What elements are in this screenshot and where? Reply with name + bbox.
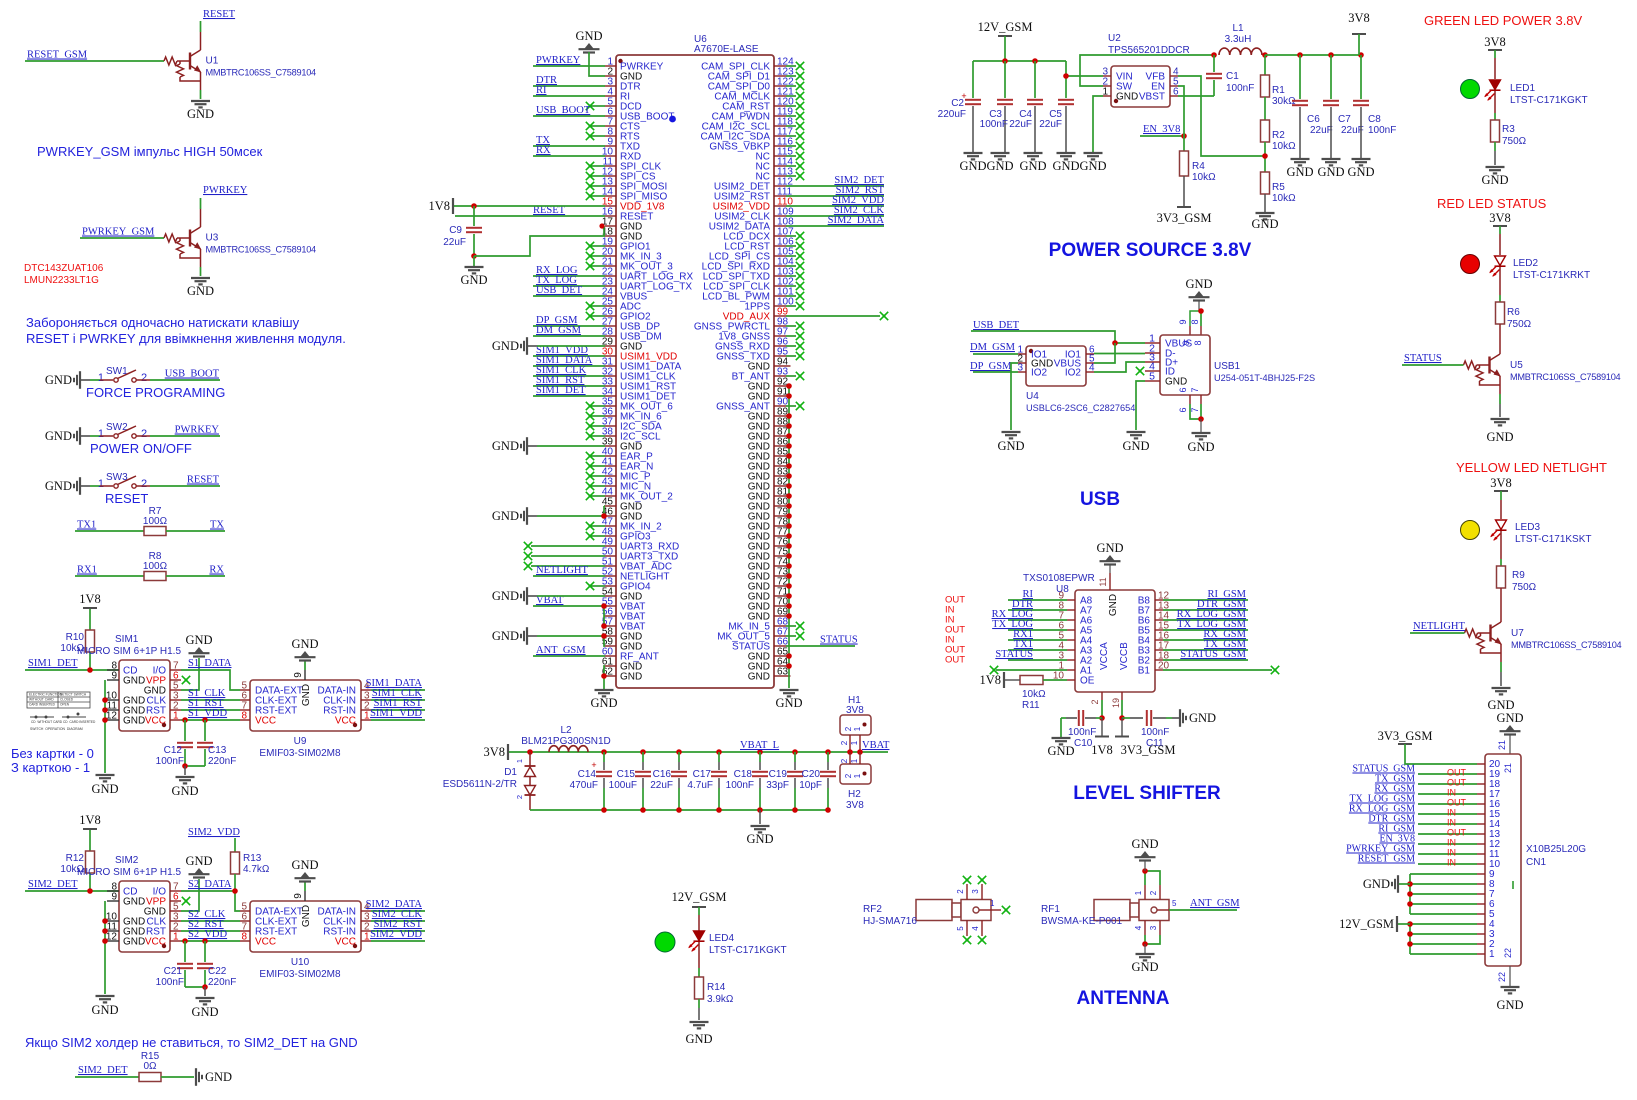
svg-text:GND: GND [1116, 92, 1138, 103]
svg-text:EN_3V8: EN_3V8 [1143, 124, 1180, 135]
svg-text:10kΩ: 10kΩ [1022, 689, 1046, 700]
svg-text:LTST-C171KGKT: LTST-C171KGKT [709, 945, 787, 956]
ground [195, 868, 204, 874]
ground [1024, 152, 1043, 154]
module U6 A7670E-LASE [616, 55, 774, 688]
svg-text:IN: IN [1447, 838, 1456, 848]
wire VBAT [533, 605, 605, 607]
svg-text:GND: GND [748, 672, 770, 683]
transistor U5 MMBTRC106SS [1499, 324, 1501, 336]
svg-text:3V8: 3V8 [1484, 35, 1506, 49]
side grounds on U6 left GND pins [526, 337, 528, 355]
svg-text:U5: U5 [1510, 360, 1523, 371]
svg-text:LED4: LED4 [709, 933, 734, 944]
svg-text:C14: C14 [578, 769, 597, 780]
pin 6 USB_BOOT mode dot [669, 116, 676, 123]
resistor R10 10k pullup [89, 608, 91, 630]
svg-text:CN1: CN1 [1526, 857, 1546, 868]
svg-text:33pF: 33pF [766, 780, 789, 791]
wire RI to A8 [1067, 599, 1075, 601]
svg-text:GND: GND [748, 612, 770, 623]
wire SIM1_CLK [533, 375, 605, 377]
wire B3 to TX_GSM [1155, 649, 1163, 651]
svg-text:DP_GSM: DP_GSM [970, 361, 1012, 372]
svg-text:5: 5 [956, 926, 965, 931]
ground [304, 882, 306, 891]
svg-text:LED2: LED2 [1513, 258, 1538, 269]
wire TX right [166, 530, 225, 532]
wire VBAT ground rail [530, 809, 828, 811]
capacitor C2 220uF bulk [972, 61, 974, 98]
svg-text:1V8: 1V8 [428, 199, 450, 213]
svg-text:LCD_BL_PWM: LCD_BL_PWM [702, 292, 770, 303]
U6 left no-connect crosses [590, 105, 605, 107]
power 3V3_GSM [1177, 206, 1191, 208]
ground [304, 661, 306, 670]
svg-text:GND: GND [748, 442, 770, 453]
ground [191, 100, 210, 102]
wire D- straight [1094, 353, 1145, 355]
wire USB_DET [533, 295, 605, 297]
wire B6 to RX_LOG_GSM [1155, 619, 1163, 621]
wire SIM1_CLK [371, 699, 425, 701]
wire VDD_AUX no-connect [786, 315, 880, 317]
svg-text:ESD5611N-2/TR: ESD5611N-2/TR [443, 779, 517, 790]
power 3V8 feed [507, 744, 509, 760]
capacitor C15 100uF [640, 749, 646, 755]
wire B5 to TX_LOG_GSM [1155, 629, 1163, 631]
wire capacitor commons [185, 986, 205, 988]
svg-text:OUT: OUT [1447, 768, 1467, 778]
svg-text:U7: U7 [1511, 628, 1524, 639]
svg-text:MICRO SIM 6+1P H1.5: MICRO SIM 6+1P H1.5 [77, 646, 181, 657]
inductor L1 3.3uH [1211, 52, 1217, 58]
svg-text:USB_BOOT: USB_BOOT [536, 105, 591, 116]
svg-text:GND: GND [620, 672, 642, 683]
svg-text:1V8: 1V8 [1091, 743, 1113, 757]
wire USB_BOOT [533, 115, 605, 117]
resistor R5 10k [1261, 172, 1270, 194]
svg-text:C12: C12 [164, 745, 183, 756]
wire TX [533, 145, 605, 147]
wire VIN [1066, 75, 1103, 77]
svg-text:10kΩ: 10kΩ [1272, 193, 1296, 204]
svg-text:GND: GND [1019, 159, 1046, 173]
svg-text:GND: GND [492, 339, 519, 353]
svg-text:1: 1 [850, 758, 859, 763]
wire C9 to U6 GND pins 17,18 [474, 236, 605, 256]
svg-text:94: 94 [777, 357, 789, 368]
svg-text:2: 2 [1149, 890, 1158, 895]
ground [1002, 431, 1021, 433]
svg-text:IN: IN [1447, 858, 1456, 868]
svg-text:C9: C9 [449, 225, 462, 236]
svg-text:RESET і PWRKEY для ввімкнення: RESET і PWRKEY для ввімкнення живлення м… [26, 331, 346, 346]
svg-text:1: 1 [1489, 949, 1495, 960]
svg-text:C21: C21 [164, 966, 183, 977]
ground [1136, 953, 1155, 955]
svg-text:C18: C18 [734, 769, 753, 780]
ground [690, 1021, 709, 1023]
svg-text:CAM_PWDN: CAM_PWDN [712, 112, 770, 123]
svg-text:NC: NC [756, 172, 770, 183]
svg-text:GND: GND [748, 432, 770, 443]
svg-text:2: 2 [141, 372, 147, 384]
svg-text:OPEN: OPEN [60, 703, 70, 707]
svg-text:GND: GND [748, 362, 770, 373]
wire RX1 to A4 [1067, 639, 1075, 641]
transistor U7 MMBTRC106SS [1500, 588, 1502, 604]
svg-text:S2_VDD: S2_VDD [188, 929, 228, 940]
capacitor C12 100nF [182, 717, 188, 723]
svg-text:C13: C13 [208, 745, 227, 756]
capacitor C10 100nF [1096, 717, 1102, 719]
svg-text:750Ω: 750Ω [1502, 136, 1527, 147]
svg-text:VCCB: VCCB [1119, 642, 1130, 670]
ground [79, 427, 81, 445]
LED LED2 LTST-C171KRKT [1461, 255, 1480, 274]
svg-text:RX1: RX1 [77, 565, 97, 576]
svg-text:2: 2 [1489, 939, 1495, 950]
capacitor C21 100nF [182, 938, 188, 944]
svg-text:R14: R14 [707, 982, 726, 993]
svg-text:R4: R4 [1192, 161, 1205, 172]
sim filter IC U9 EMIF03-SIM02M8 [250, 680, 361, 731]
svg-text:220nF: 220nF [208, 756, 236, 767]
wire SIM2_RST [371, 930, 425, 932]
wire U4 GND [1011, 363, 1018, 430]
svg-text:HJ-SMA716: HJ-SMA716 [863, 916, 917, 927]
wire TX_LOG_GSM [1418, 803, 1477, 805]
svg-text:100nF: 100nF [1368, 125, 1396, 136]
node SIM2_DET junction [87, 888, 93, 894]
svg-text:C7: C7 [1338, 114, 1351, 125]
svg-text:GND: GND [748, 492, 770, 503]
svg-text:L2: L2 [560, 725, 572, 736]
svg-text:R13: R13 [243, 853, 262, 864]
RF2 pin 1 no-connect [991, 909, 1001, 911]
svg-text:4: 4 [1134, 925, 1143, 930]
power 12V_GSM [1396, 916, 1398, 932]
no-connect ID pin [1136, 367, 1144, 375]
svg-text:ANT_GSM: ANT_GSM [536, 645, 586, 656]
svg-text:GND: GND [91, 782, 118, 796]
wire VBUS net [1115, 342, 1145, 344]
wire RESET_GSM [1418, 863, 1477, 865]
ground [1322, 158, 1341, 160]
connector CN1 X10B25L20G [1485, 754, 1521, 966]
wire SIM2_VDD [786, 205, 884, 207]
svg-text:IN: IN [1447, 788, 1456, 798]
ground [1291, 158, 1310, 160]
svg-text:POWER SOURCE 3.8V: POWER SOURCE 3.8V [1049, 240, 1252, 261]
resistor R1 30k [1264, 55, 1266, 75]
svg-text:GND: GND [1185, 277, 1212, 291]
ground [780, 689, 799, 691]
wire SIM2_VDD [371, 940, 425, 942]
svg-text:Без картки - 0: Без картки - 0 [11, 746, 94, 761]
svg-text:GNSS_RXD: GNSS_RXD [715, 342, 770, 353]
svg-text:2: 2 [141, 428, 147, 440]
svg-text:SIM2_DET: SIM2_DET [28, 879, 78, 890]
wire to RESET [150, 485, 220, 487]
svg-text:100Ω: 100Ω [143, 516, 168, 527]
table: sim switch detail [27, 692, 90, 708]
svg-text:U4: U4 [1026, 391, 1039, 402]
svg-text:RX: RX [536, 145, 551, 156]
svg-text:RI: RI [536, 85, 547, 96]
capacitor C5 22uF [1065, 61, 1067, 98]
ground [759, 810, 761, 824]
wire STATUS to A2 [1067, 659, 1075, 661]
svg-text:MK_OUT_5: MK_OUT_5 [717, 632, 770, 643]
svg-text:22uF: 22uF [650, 780, 673, 791]
svg-text:GND: GND [748, 532, 770, 543]
ground [1057, 152, 1076, 154]
svg-text:GND: GND [748, 502, 770, 513]
transistor U1 [164, 57, 177, 65]
svg-text:GND: GND [748, 522, 770, 533]
svg-text:OUT: OUT [1447, 778, 1467, 788]
ground at pins 58,59 [526, 627, 528, 645]
capacitor C4 22uF [1034, 61, 1036, 98]
svg-text:GND: GND [1131, 837, 1158, 851]
svg-text:USIM2_RST: USIM2_RST [714, 192, 770, 203]
svg-text:GND: GND [775, 696, 802, 710]
wire PWRKEY_GSM [1418, 853, 1477, 855]
svg-text:PWRKEY_GSM: PWRKEY_GSM [82, 227, 155, 238]
svg-text:Забороняється одночасно натиск: Забороняється одночасно натискати клавіш… [26, 315, 300, 330]
svg-text:U2: U2 [1108, 33, 1121, 44]
wire DTR to A7 [1067, 609, 1075, 611]
svg-text:8: 8 [1193, 340, 1203, 345]
svg-text:LCD_RST: LCD_RST [724, 242, 770, 253]
svg-text:5: 5 [1172, 899, 1177, 908]
capacitor C14 470uF [601, 749, 607, 755]
svg-text:2: 2 [840, 758, 849, 763]
wire 3V8 rail [1265, 54, 1361, 56]
wire RX_LOG to A6 [1067, 619, 1075, 621]
svg-text:3: 3 [971, 889, 980, 894]
svg-text:GND: GND [205, 1070, 232, 1084]
ground [1141, 851, 1150, 857]
svg-text:GND: GND [187, 107, 214, 121]
svg-text:2: 2 [956, 889, 965, 894]
svg-text:GND: GND [1363, 877, 1390, 891]
svg-text:GND: GND [123, 716, 145, 727]
svg-text:OUT: OUT [1447, 828, 1467, 838]
ground at pins 45,46 [526, 507, 528, 525]
wire SIM1_VDD [371, 719, 425, 721]
svg-text:U1: U1 [206, 56, 219, 67]
svg-text:Якщо SIM2 холдер не ставиться,: Якщо SIM2 холдер не ставиться, то SIM2_D… [25, 1035, 358, 1050]
wire DP_GSM [533, 325, 605, 327]
capacitor C9 22uF [473, 206, 475, 226]
ground [1256, 212, 1275, 214]
svg-text:GND: GND [492, 509, 519, 523]
svg-text:R6: R6 [1507, 307, 1520, 318]
svg-text:YELLOW LED NETLIGHT: YELLOW LED NETLIGHT [1456, 460, 1607, 475]
ground [1127, 431, 1146, 433]
svg-text:GND: GND [1487, 698, 1514, 712]
svg-text:100nF: 100nF [156, 977, 184, 988]
svg-text:H2: H2 [848, 789, 861, 800]
svg-text:CAM_MCLK: CAM_MCLK [714, 92, 770, 103]
svg-text:IN: IN [1447, 818, 1456, 828]
svg-text:GND: GND [301, 684, 312, 706]
wire RX_GSM [1418, 793, 1477, 795]
svg-text:SIM2_DATA: SIM2_DATA [828, 215, 885, 226]
svg-text:CD WITHOUT CARD: CD WITHOUT CARD [31, 720, 63, 724]
inductor L2 BLM21PG300SN1D [549, 746, 588, 752]
svg-text:MK_IN_5: MK_IN_5 [728, 622, 770, 633]
svg-text:DTC143ZUAT106: DTC143ZUAT106 [24, 263, 104, 274]
svg-text:3: 3 [1017, 363, 1023, 374]
svg-text:GND: GND [492, 589, 519, 603]
wire TX_LOG [533, 285, 605, 287]
capacitor C13 220nF [202, 717, 208, 723]
svg-text:D1: D1 [504, 767, 517, 778]
svg-text:100nF: 100nF [1226, 83, 1254, 94]
svg-text:STATUS_GSM: STATUS_GSM [1180, 649, 1246, 660]
svg-text:GND: GND [748, 512, 770, 523]
svg-text:STATUS: STATUS [1404, 353, 1442, 364]
wire NETLIGHT [533, 575, 605, 577]
capacitor C18 100nF [757, 749, 763, 755]
wire SIM1_VDD [533, 355, 605, 357]
svg-text:GND: GND [492, 439, 519, 453]
svg-text:ANTENNA: ANTENNA [1077, 988, 1170, 1009]
svg-text:4.7kΩ: 4.7kΩ [243, 864, 270, 875]
svg-text:SIM2_DET: SIM2_DET [78, 1065, 128, 1076]
svg-text:63: 63 [777, 667, 789, 678]
ground [191, 277, 210, 279]
svg-text:PWRKEY_GSM імпульс HIGH 50мсек: PWRKEY_GSM імпульс HIGH 50мсек [37, 144, 263, 159]
capacitor C3 100nF [1004, 61, 1006, 98]
svg-text:ANT_GSM: ANT_GSM [1190, 898, 1240, 909]
svg-text:R5: R5 [1272, 182, 1285, 193]
ground pin 11 top [1106, 555, 1115, 561]
svg-text:CLOSED: CLOSED [60, 698, 74, 702]
svg-text:1PPS: 1PPS [744, 302, 770, 313]
wire SIM2_DATA [786, 225, 884, 227]
svg-text:GND: GND [1108, 594, 1119, 616]
svg-text:GND: GND [492, 629, 519, 643]
svg-text:1: 1 [850, 740, 859, 745]
svg-text:22uF: 22uF [1039, 119, 1062, 130]
svg-text:RF2: RF2 [863, 904, 882, 915]
svg-text:750Ω: 750Ω [1507, 319, 1532, 330]
svg-text:GND: GND [1122, 439, 1149, 453]
svg-text:4: 4 [971, 926, 980, 931]
ground [96, 774, 115, 776]
svg-text:1V8: 1V8 [79, 592, 101, 606]
LED LED4 LTST-C171KGKT green [655, 932, 675, 952]
ground [96, 995, 115, 997]
capacitor C7 22uF [1330, 55, 1332, 99]
svg-text:PWRKEY: PWRKEY [175, 425, 220, 436]
svg-text:S1_DATA: S1_DATA [188, 658, 232, 669]
ground [1352, 158, 1371, 160]
svg-text:ELECTRIC FUNCTION: ELECTRIC FUNCTION [29, 693, 63, 697]
pin OE with pullup R11 [1067, 679, 1075, 681]
wire SIM2_CLK [786, 215, 884, 217]
wire U2 GND [1093, 96, 1103, 152]
wire connector grounds to GND [104, 680, 106, 773]
resistor R4 10k [1183, 136, 1185, 151]
rf jack RF1 BWSMA-KE-P001 [1094, 900, 1130, 921]
svg-text:GND: GND [301, 905, 312, 927]
svg-text:STATUS: STATUS [732, 642, 770, 653]
svg-text:8: 8 [1190, 319, 1200, 324]
svg-text:EMIF03-SIM02M8: EMIF03-SIM02M8 [259, 969, 341, 980]
svg-text:9: 9 [1178, 319, 1188, 324]
svg-text:5: 5 [1489, 909, 1495, 920]
svg-text:GND: GND [986, 159, 1013, 173]
svg-text:750Ω: 750Ω [1512, 582, 1537, 593]
ground [1492, 687, 1511, 689]
svg-text:LEVEL SHIFTER: LEVEL SHIFTER [1073, 783, 1221, 804]
ground [473, 256, 475, 266]
svg-text:WITHOUT CARD: WITHOUT CARD [29, 698, 54, 702]
resistor R6 750R [1496, 302, 1505, 324]
capacitor C11 100nF [1122, 717, 1130, 719]
svg-text:22: 22 [1503, 948, 1513, 958]
svg-text:CAM_RST: CAM_RST [722, 102, 770, 113]
wire RI [533, 95, 605, 97]
svg-text:GND: GND [748, 412, 770, 423]
resistor R9 750R [1497, 566, 1506, 588]
svg-text:MMBTRC106SS_C7589104: MMBTRC106SS_C7589104 [206, 245, 317, 255]
ground [1192, 432, 1211, 434]
svg-text:GND: GND [959, 159, 986, 173]
power 3V3_GSM below VCCB [1121, 718, 1123, 736]
svg-text:GND: GND [1187, 440, 1214, 454]
svg-text:MMBTRC106SS_C7589104: MMBTRC106SS_C7589104 [206, 68, 317, 78]
svg-text:R10: R10 [66, 632, 85, 643]
pin B1 no-connect [1155, 669, 1163, 671]
wire pin5 GND up [181, 879, 199, 911]
svg-text:GND: GND [748, 542, 770, 553]
wire collector to RESET [200, 21, 202, 32]
RF1 shield to ground bottom [1144, 921, 1146, 936]
svg-text:3V8: 3V8 [483, 745, 505, 759]
wire SIM1_DATA [533, 365, 605, 367]
svg-text:7: 7 [1489, 889, 1495, 900]
svg-text:1: 1 [98, 372, 104, 384]
svg-text:SIM2: SIM2 [115, 855, 139, 866]
svg-text:CAM_SPI_CLK: CAM_SPI_CLK [701, 62, 770, 73]
power 1V8 [83, 828, 97, 830]
svg-text:GND: GND [1131, 960, 1158, 974]
svg-text:GNSS_VBKP: GNSS_VBKP [709, 142, 770, 153]
wire SIM2_RST [786, 195, 884, 197]
svg-text:U3: U3 [206, 233, 219, 244]
svg-text:GND: GND [997, 439, 1024, 453]
svg-text:USIM2_DET: USIM2_DET [714, 182, 770, 193]
svg-text:BWSMA-KE-P001: BWSMA-KE-P001 [1041, 916, 1123, 927]
wire B2 to STATUS_GSM [1155, 659, 1163, 661]
svg-text:GND: GND [123, 676, 145, 687]
power 1V8 and capacitor C9 at pin 15 [452, 198, 454, 214]
svg-text:7: 7 [1190, 387, 1200, 392]
svg-text:GND: GND [1496, 711, 1523, 725]
svg-text:BLM21PG300SN1D: BLM21PG300SN1D [521, 736, 611, 747]
svg-text:RESET_GSM: RESET_GSM [1358, 854, 1415, 865]
svg-text:R1: R1 [1272, 85, 1285, 96]
svg-text:USIM2_CLK: USIM2_CLK [714, 212, 770, 223]
svg-text:9: 9 [293, 893, 304, 899]
